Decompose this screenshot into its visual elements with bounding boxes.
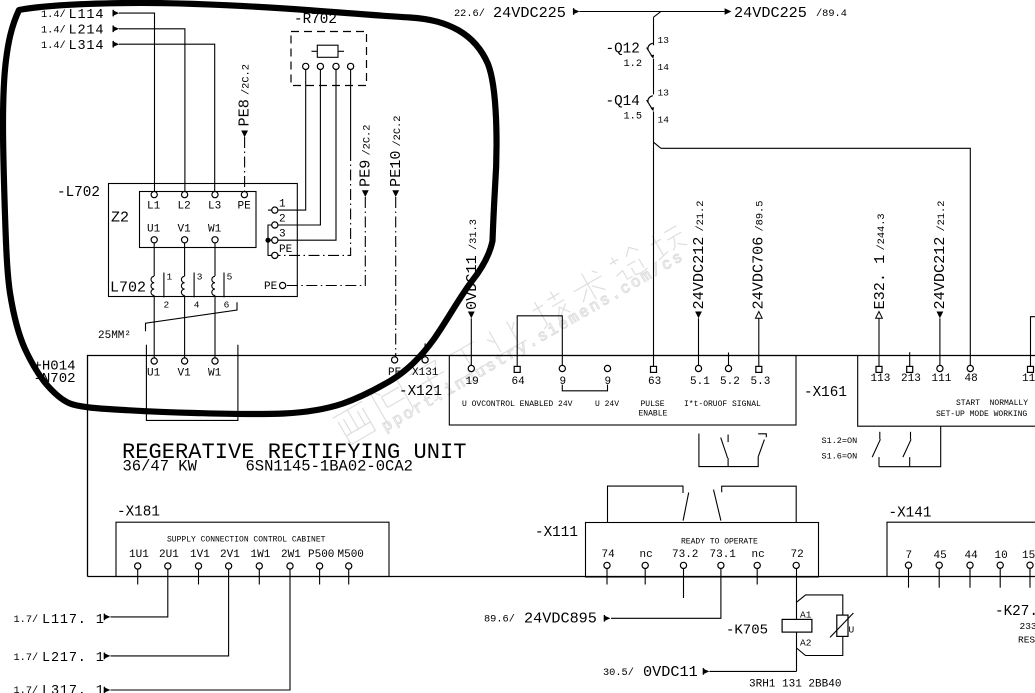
svg-text:-X111: -X111	[535, 525, 578, 541]
svg-text:-X181: -X181	[117, 505, 160, 521]
node PE10 reference	[387, 116, 405, 197]
svg-text:PE: PE	[279, 244, 293, 256]
stub below 74	[606, 569, 608, 585]
stub below nc right	[756, 569, 758, 585]
wire R702 pin2 to L702 terminal 2	[278, 70, 320, 226]
resistor R702 body	[312, 45, 345, 57]
svg-text:L117. 1: L117. 1	[42, 613, 105, 628]
varistor branch wires	[797, 595, 843, 656]
svg-text:89.6/: 89.6/	[484, 614, 515, 626]
unit bottom edge	[88, 576, 1035, 578]
rectifier unit outline top edge	[88, 356, 1035, 577]
svg-text:63: 63	[648, 376, 661, 388]
svg-text:1U1: 1U1	[129, 549, 149, 561]
svg-text:L314: L314	[69, 39, 105, 54]
terminal 73.2	[680, 562, 686, 568]
R702 pin 4	[348, 63, 354, 69]
wire V1 terminal down to coil	[184, 243, 186, 276]
svg-text:nc: nc	[640, 549, 653, 561]
terminal 45	[936, 562, 942, 568]
contact group I*t below X121	[699, 434, 766, 467]
R702 pin 2	[317, 63, 323, 69]
junction dot	[265, 238, 270, 243]
svg-text:6: 6	[224, 300, 230, 311]
svg-text:U OVCONTROL ENABLED 24V: U OVCONTROL ENABLED 24V	[462, 400, 573, 409]
terminal 72	[793, 562, 799, 568]
svg-text:RES: RES	[1018, 635, 1035, 646]
svg-text:3: 3	[279, 229, 286, 241]
terminal 213	[907, 366, 913, 372]
svg-text:30.5/: 30.5/	[603, 667, 634, 679]
svg-text:24VDC895: 24VDC895	[524, 610, 597, 628]
wire S1 common return	[879, 426, 941, 467]
svg-text:L702: L702	[110, 280, 146, 297]
relay strip X111 box	[586, 523, 819, 578]
svg-text:14: 14	[658, 115, 670, 126]
node L217.1 feeder	[14, 651, 111, 666]
svg-text:PE8: PE8	[236, 99, 254, 126]
terminal strip X141 box	[887, 522, 1035, 576]
svg-text:233: 233	[1020, 621, 1035, 632]
wire L314	[119, 44, 215, 191]
node L317.1 feeder cut at bottom	[14, 684, 111, 693]
unit terminal W1	[212, 358, 218, 364]
node 24VDC212 reference at 5.1	[690, 201, 708, 319]
svg-text:SUPPLY CONNECTION CONTROL CABI: SUPPLY CONNECTION CONTROL CABINET	[167, 536, 326, 545]
varistor U	[830, 613, 855, 637]
terminal 44	[967, 562, 973, 568]
terminal 48	[967, 365, 973, 371]
jumper 64 to 9	[517, 316, 562, 367]
svg-text:/2C.2: /2C.2	[362, 125, 374, 156]
terminal 5.2	[725, 365, 731, 371]
svg-text:1V1: 1V1	[190, 549, 210, 561]
svg-text:S1.2=ON: S1.2=ON	[822, 436, 858, 446]
wire 72 down through K705	[796, 569, 798, 672]
svg-text:1.2: 1.2	[624, 58, 643, 70]
unit terminal V1	[182, 358, 188, 364]
wire down to Q12	[653, 17, 655, 45]
wire 73.1 down to 24VDC895	[611, 569, 721, 619]
svg-text:V1: V1	[178, 368, 192, 380]
wire 24VDC212 to 5.1	[698, 318, 700, 365]
stubs below X181 terminals	[138, 569, 349, 584]
R702 pin 1	[303, 63, 309, 69]
wire L114	[119, 13, 155, 191]
svg-text:L2: L2	[178, 201, 191, 213]
svg-text:M500: M500	[338, 549, 364, 561]
inductor coil 5-6 under W1	[212, 272, 233, 311]
svg-text:SET-UP MODE WORKING: SET-UP MODE WORKING	[936, 410, 1027, 419]
svg-text:PE: PE	[238, 201, 252, 213]
terminal 11 cut at edge	[1028, 366, 1034, 372]
node L214 feeder	[41, 24, 119, 39]
unit terminal U1	[151, 358, 157, 364]
svg-text:24VDC212: 24VDC212	[931, 237, 949, 310]
wire stub above 5.2	[728, 353, 730, 366]
svg-text:3RH1 131 2BB40: 3RH1 131 2BB40	[749, 679, 841, 691]
svg-text:1: 1	[279, 199, 286, 211]
terminal 63	[651, 366, 657, 372]
svg-text:Z2: Z2	[111, 210, 129, 227]
terminal 5.3	[756, 366, 762, 372]
terminal strip X161 box	[858, 356, 1035, 427]
contact Q12	[606, 35, 670, 73]
freehand marker blob	[3, 3, 497, 414]
terminal 1U1	[135, 563, 141, 569]
svg-text:nc: nc	[752, 549, 765, 561]
svg-text:P500: P500	[308, 549, 334, 561]
terminal 10	[997, 562, 1003, 568]
svg-text:5.2: 5.2	[720, 376, 740, 388]
terminal M500	[346, 563, 352, 569]
svg-text:U1: U1	[147, 224, 161, 236]
node 24VDC895 feeder	[484, 610, 610, 628]
switch S1.6 below 213	[903, 432, 911, 467]
svg-text:24VDC212: 24VDC212	[690, 237, 708, 310]
svg-text:73.2: 73.2	[672, 549, 698, 561]
svg-text:-X141: -X141	[889, 506, 932, 522]
wire E32.1 to 113	[878, 318, 880, 366]
terminal 64	[514, 366, 520, 372]
svg-text:ENABLE: ENABLE	[639, 410, 668, 419]
svg-text:/31.3: /31.3	[468, 219, 480, 250]
svg-text:2: 2	[164, 300, 170, 311]
svg-text:-X121: -X121	[399, 384, 442, 400]
svg-text:5.3: 5.3	[751, 376, 771, 388]
svg-text:I*t-ORUOF SIGNAL: I*t-ORUOF SIGNAL	[684, 400, 761, 409]
terminal strip X181 box	[116, 522, 389, 576]
svg-text:PULSE: PULSE	[641, 400, 665, 409]
svg-text:1.4/: 1.4/	[41, 25, 66, 37]
PE stud terminal bottom of L702	[264, 281, 286, 293]
svg-text:L114: L114	[69, 8, 105, 23]
terminal X131	[412, 343, 439, 379]
svg-text:PE: PE	[264, 281, 278, 293]
R702 pin 3	[333, 63, 339, 69]
svg-text:/2C.2: /2C.2	[392, 116, 404, 147]
svg-text:/21.2: /21.2	[695, 201, 707, 232]
svg-text:S1.6=ON: S1.6=ON	[822, 452, 858, 462]
svg-text:U: U	[849, 625, 855, 636]
svg-text:2: 2	[279, 214, 286, 226]
terminal nc right	[754, 562, 760, 568]
wire PE9 dash-dot down and left to PE stud	[286, 197, 365, 286]
Z2 terminal box	[140, 192, 257, 248]
svg-text:1.4/: 1.4/	[41, 40, 66, 52]
watermark	[332, 220, 696, 456]
terminal L1	[151, 192, 157, 198]
terminal 5.1	[695, 365, 701, 371]
stubs below X141 terminals	[909, 568, 1031, 587]
svg-text:213: 213	[901, 373, 921, 385]
node E32.1 reference	[871, 213, 889, 318]
wire 24VDC212 to 111	[939, 318, 941, 365]
svg-text:4: 4	[194, 300, 200, 311]
svg-text:74: 74	[602, 549, 616, 561]
svg-text:L317. 1: L317. 1	[42, 684, 105, 693]
node L114 feeder	[41, 8, 119, 23]
svg-text:U1: U1	[147, 368, 161, 380]
terminal 15 cut	[1027, 562, 1033, 568]
svg-text:L217. 1: L217. 1	[42, 651, 105, 666]
svg-text:22.6/: 22.6/	[454, 8, 485, 20]
L702 terminal 1 right side	[268, 199, 286, 214]
svg-text:L214: L214	[69, 24, 105, 39]
terminal 74	[604, 562, 610, 568]
svg-text:24VDC706: 24VDC706	[750, 237, 768, 310]
svg-text:48: 48	[965, 373, 978, 385]
jumper bar linking terminals 2,3,PE	[268, 225, 272, 255]
wire R702 pin4 to L702 terminal PE (dash-dot)	[350, 70, 352, 151]
resistor R702 dashed enclosure	[291, 32, 367, 86]
svg-text:L1: L1	[147, 201, 161, 213]
svg-text:7: 7	[906, 550, 913, 562]
stub below 73.2	[683, 569, 685, 599]
svg-text:PE9: PE9	[357, 160, 375, 187]
L702 terminal PE right side	[272, 244, 293, 259]
wire W1 to unit	[214, 296, 216, 358]
wire 2U1 to L117.1	[111, 569, 168, 617]
terminal 19	[468, 365, 474, 371]
wire L214	[119, 29, 185, 192]
svg-text:5: 5	[227, 272, 233, 283]
wire Q14 down to terminal 63	[653, 112, 655, 367]
svg-text:2W1: 2W1	[281, 549, 301, 561]
svg-text:1.7/: 1.7/	[14, 652, 39, 664]
switch S1.2 below 113	[872, 432, 880, 467]
terminal 2U1	[165, 563, 171, 569]
svg-text:24VDC225: 24VDC225	[734, 4, 807, 22]
terminal P500	[317, 563, 323, 569]
wire W1 terminal down to coil	[214, 243, 216, 276]
node PE8 reference	[236, 64, 254, 137]
svg-text:/2C.2: /2C.2	[241, 64, 253, 95]
svg-text:PE10: PE10	[387, 151, 405, 187]
terminal 1V1	[195, 563, 201, 569]
wire terminal 11 up and off page	[1031, 317, 1035, 367]
wire U1 terminal down to coil	[153, 243, 155, 276]
svg-text:/89.4: /89.4	[816, 8, 847, 20]
wire 24VDC706 to 5.3	[758, 318, 760, 366]
terminal 2W1	[287, 563, 293, 569]
node 24VDC225 outgoing	[725, 4, 847, 22]
svg-text:START NORMALLY: START NORMALLY	[956, 399, 1028, 408]
svg-text:25MM²: 25MM²	[98, 330, 131, 342]
stub below nc left	[644, 569, 646, 585]
wire U1 to unit	[153, 296, 155, 358]
svg-text:1.7/: 1.7/	[14, 614, 39, 626]
svg-text:-Q14: -Q14	[606, 94, 640, 110]
svg-text:X131: X131	[412, 367, 439, 379]
terminal 111	[937, 365, 943, 371]
svg-text:13: 13	[658, 35, 670, 46]
node PE9 reference	[357, 125, 375, 197]
svg-text:111: 111	[932, 373, 952, 385]
svg-text:6SN1145-1BA02-0CA2: 6SN1145-1BA02-0CA2	[246, 458, 413, 476]
svg-text:A2: A2	[800, 638, 812, 649]
coil K705	[726, 610, 812, 649]
wire R702 pin3 to L702 terminal 3	[278, 70, 336, 241]
node 0VDC11 bottom feeder	[603, 663, 709, 681]
terminal 1W1	[256, 563, 262, 569]
svg-text:13: 13	[658, 88, 670, 99]
unit terminal PE	[392, 357, 398, 363]
svg-text:3: 3	[197, 272, 203, 283]
svg-text:-K705: -K705	[726, 623, 768, 639]
svg-text:73.1: 73.1	[710, 549, 737, 561]
terminal 2V1	[226, 563, 232, 569]
svg-text:45: 45	[934, 550, 947, 562]
svg-text:1: 1	[167, 272, 173, 283]
svg-text:/21.2: /21.2	[936, 201, 948, 232]
svg-text:2U1: 2U1	[159, 549, 179, 561]
svg-text:72: 72	[791, 549, 804, 561]
power terminal frame around U1 V1 W1	[146, 345, 238, 421]
wire 0VDC11 to 72 wire	[710, 670, 797, 672]
svg-text:64: 64	[512, 376, 526, 388]
relay contact linkage 74 to 73.2	[608, 486, 689, 522]
svg-text:36/47 KW: 36/47 KW	[123, 458, 198, 476]
terminal L2	[182, 192, 188, 198]
svg-text:15.: 15.	[1022, 550, 1035, 562]
svg-text:V1: V1	[178, 224, 192, 236]
svg-text:1W1: 1W1	[251, 549, 271, 561]
terminal nc left	[642, 562, 648, 568]
terminal L3	[212, 192, 218, 198]
svg-text:14: 14	[658, 62, 670, 73]
svg-text:W1: W1	[208, 368, 222, 380]
wire 0VDC11 to terminal 19	[470, 318, 472, 365]
node L117.1 feeder	[14, 613, 111, 628]
jumper 9 to 9 below	[562, 385, 607, 391]
terminal PE top	[241, 192, 247, 198]
wire junction jog to Q ladder	[654, 12, 661, 18]
node L314 feeder	[41, 39, 119, 54]
wire PE10 dash-dot down to unit PE terminal	[395, 197, 397, 357]
wire branch jog to 48	[654, 142, 661, 148]
svg-text:-Q12: -Q12	[606, 42, 640, 58]
svg-text:1.5: 1.5	[624, 111, 643, 123]
node 0VDC11 reference	[463, 219, 481, 318]
svg-text:1.4/: 1.4/	[41, 9, 66, 21]
wire horizontal to terminal 48	[661, 148, 970, 365]
node 24VDC212 reference at 111	[931, 201, 949, 319]
cable slash symbol	[146, 302, 238, 331]
terminal 7	[905, 562, 911, 568]
node 24VDC706 reference at 5.3	[750, 201, 768, 319]
svg-text:READY TO OPERATE: READY TO OPERATE	[681, 538, 758, 547]
wire stub above 213	[909, 352, 911, 366]
svg-text:0VDC11: 0VDC11	[643, 663, 698, 681]
svg-text:-X161: -X161	[804, 385, 847, 401]
wire 24VDC225 top	[580, 11, 725, 13]
svg-text:-L702: -L702	[57, 185, 100, 201]
wire 2V1 to L217.1	[111, 569, 229, 656]
svg-text:24VDC225: 24VDC225	[493, 4, 566, 22]
wire R702 pin1 to L702 terminal 1	[278, 70, 306, 211]
svg-text:L3: L3	[208, 201, 221, 213]
svg-text:10: 10	[995, 550, 1008, 562]
svg-text:W1: W1	[208, 224, 222, 236]
node 24VDC225 feeder	[454, 4, 580, 22]
wire V1 to unit	[184, 296, 186, 358]
svg-text:113: 113	[871, 373, 891, 385]
terminal strip X121 box	[449, 356, 796, 426]
svg-text:/244.3: /244.3	[876, 213, 888, 250]
L702 terminal 2 right side	[272, 214, 286, 229]
svg-text:19: 19	[466, 376, 479, 388]
terminal 9 second	[604, 365, 610, 371]
svg-text:/89.5: /89.5	[755, 201, 767, 232]
svg-text:5.1: 5.1	[690, 376, 710, 388]
svg-text:E32. 1: E32. 1	[871, 255, 889, 310]
svg-text:11: 11	[1022, 373, 1035, 385]
svg-text:44: 44	[965, 550, 979, 562]
inductor coil 1-2 under U1	[151, 272, 173, 311]
svg-text:1.7/: 1.7/	[14, 685, 39, 693]
inductor coil 3-4 under V1	[181, 272, 202, 311]
relay K27 label cut at edge	[995, 604, 1035, 646]
svg-text:-K27.: -K27.	[995, 604, 1035, 620]
contact Q14	[606, 88, 670, 126]
terminal 113	[876, 366, 882, 372]
wire Q12 to Q14	[653, 59, 655, 95]
terminal 9 first	[559, 365, 565, 371]
svg-text:U 24V: U 24V	[595, 400, 619, 409]
wire PE8 dash-dot	[244, 137, 246, 191]
inductor L702 outer box	[109, 184, 298, 297]
relay contact linkage 73.1 to 72	[714, 486, 797, 522]
wire 2W1 to L317.1	[111, 569, 291, 690]
terminal 73.1	[718, 562, 724, 568]
svg-text:2V1: 2V1	[220, 549, 240, 561]
L702 terminal 3 right side	[272, 229, 286, 244]
